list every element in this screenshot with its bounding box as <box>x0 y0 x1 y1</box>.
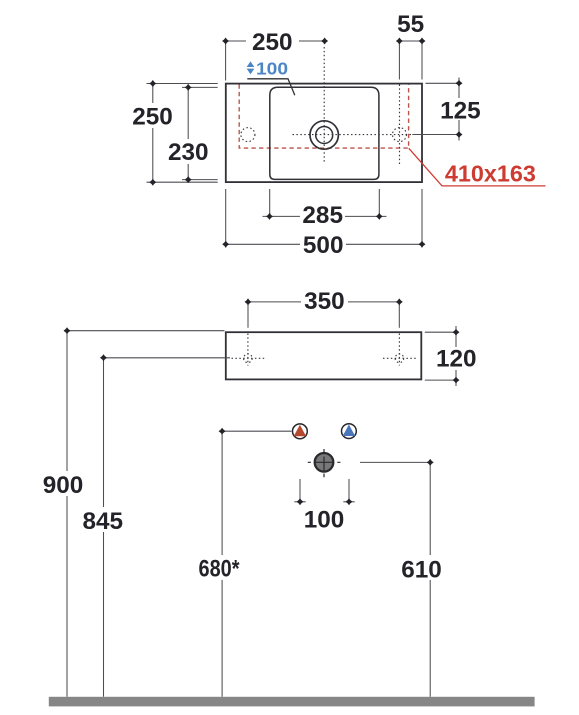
dimension 680* label <box>195 555 245 580</box>
dimension 900 label <box>42 471 85 496</box>
dimension 250 top arrow right <box>321 38 328 45</box>
tap-hole recess 410x163 red dashed rectangle <box>239 84 408 148</box>
dimension 230 label <box>165 139 211 164</box>
dimension 285 left extension line <box>269 189 271 216</box>
right mounting hole horizontal dotted centerline <box>383 357 416 359</box>
svg-text:500: 500 <box>303 232 344 259</box>
hot water supply symbol (red triangle in circle) <box>293 424 308 439</box>
dimension 250 left arrow bottom <box>149 179 156 186</box>
dimension 125 arrow top <box>456 80 463 87</box>
dimension 120 line <box>455 326 457 386</box>
bowl rounded rectangle (top view) <box>270 87 379 179</box>
floor bar <box>49 697 535 707</box>
dimension 845 line <box>103 358 105 697</box>
dimension 350 arrow right <box>396 298 403 305</box>
dimension 100 arrow left <box>297 498 304 505</box>
left mounting hole dotted circle <box>244 354 253 363</box>
svg-text:410x163: 410x163 <box>445 160 536 186</box>
svg-text:100: 100 <box>256 58 288 78</box>
dimension 350 right extension line <box>398 305 400 328</box>
dimension 230 arrow top <box>185 84 192 91</box>
basin outline (top view) fill <box>226 84 422 183</box>
dimension 500 right extension line <box>421 189 423 248</box>
dimension 100 left arrow line <box>299 479 301 502</box>
dimension 250 left bottom extension line <box>147 181 218 183</box>
svg-text:350: 350 <box>304 288 345 315</box>
dimension 845 arrow top <box>100 354 107 361</box>
svg-text:250: 250 <box>252 29 293 56</box>
dimension 900 arrow top <box>64 327 71 334</box>
drain inner circle <box>316 127 333 144</box>
dimension 125 label <box>440 98 480 120</box>
dimension 250 top arrow left <box>222 38 229 45</box>
dimension 125 arrow bottom <box>456 131 463 138</box>
dimension 285 right extension line <box>378 189 380 216</box>
dimension 845 extension line to mounting holes <box>104 357 231 359</box>
right faucet hole (dotted circle) <box>393 128 407 142</box>
centerline vertical dotted through right faucet <box>399 85 401 165</box>
dimension 55 arrow right <box>419 38 426 45</box>
dimension 610 extension line to drain <box>360 461 430 463</box>
dimension 285 arrow right <box>376 213 383 220</box>
dimension 250 left arrow top <box>149 80 156 87</box>
front view basin rectangle <box>226 332 421 379</box>
dimension 500 arrow right <box>419 241 426 248</box>
dimension 845 label <box>81 507 125 532</box>
dimension 500 left extension line <box>225 189 227 248</box>
svg-text:680*: 680* <box>199 556 240 583</box>
dimension 285 line <box>263 215 387 217</box>
svg-text:900: 900 <box>43 472 84 499</box>
dimension 100 right stub line <box>343 501 354 503</box>
dimension 285 label <box>300 205 345 225</box>
dimension 55 arrow left <box>396 38 403 45</box>
dimension 55 line <box>397 40 425 42</box>
dimension 900 extension line to basin <box>67 330 225 332</box>
right mounting hole vertical dotted centerline <box>398 334 400 366</box>
left mounting hole horizontal dotted centerline <box>232 357 265 359</box>
svg-text:610: 610 <box>401 556 442 583</box>
dimension 230 top extension line <box>182 86 218 88</box>
dimension 350 line <box>246 301 402 303</box>
svg-text:120: 120 <box>436 346 477 373</box>
dimension 125 line <box>458 78 460 141</box>
left faucet hole (dotted circle) <box>241 128 255 142</box>
svg-text:250: 250 <box>132 103 173 130</box>
cold water supply symbol (blue triangle in circle) <box>342 424 357 439</box>
drain outlet horizontal centerline <box>308 461 341 463</box>
dimension 120 top extension line <box>425 331 455 333</box>
blue note 100 up-down arrow icon <box>247 61 255 74</box>
dimension 500 label <box>300 234 346 255</box>
svg-text:55: 55 <box>397 11 424 38</box>
dimension 285 arrow left <box>266 213 273 220</box>
dimension 120 arrow bottom <box>453 377 460 384</box>
dimension 610 arrow top <box>427 459 434 466</box>
dimension 55 right extension line <box>421 44 423 80</box>
svg-text:230: 230 <box>168 139 209 166</box>
dimension 610 line <box>429 462 431 696</box>
drain outlet (gray circle) <box>315 453 334 472</box>
dimension 125 top extension line <box>426 82 458 84</box>
red leader line to 410x163 <box>409 148 546 186</box>
dimension 100 right arrow line <box>348 479 350 502</box>
svg-text:285: 285 <box>302 202 343 229</box>
dimension 250 top label <box>246 32 299 50</box>
basin outline (top view) stroke <box>226 84 422 183</box>
blue note leader line <box>247 79 294 95</box>
dimension 250 top left extension line <box>225 44 227 81</box>
dimension 610 label <box>399 555 445 580</box>
dimension 350 arrow left <box>245 298 252 305</box>
dimension 250 left label <box>130 103 175 128</box>
dimension 120 bottom extension line <box>425 379 455 381</box>
dimension 500 line <box>224 243 424 245</box>
dimension 680* extension line to water supplies <box>222 430 291 432</box>
right mounting hole dotted circle <box>395 354 404 363</box>
centerline horizontal dotted through drain and right faucet <box>293 134 413 136</box>
dimension 350 label <box>301 292 348 311</box>
dimension 680* arrow top <box>219 428 226 435</box>
dimension 120 label <box>436 347 477 370</box>
dimension 55 left extension line <box>398 44 400 80</box>
dimension 230 arrow bottom <box>185 176 192 183</box>
dimension 350 left extension line <box>247 305 249 328</box>
dimension 900 line <box>66 331 68 697</box>
dimension 120 arrow top <box>453 329 460 336</box>
dimension 500 arrow left <box>222 241 229 248</box>
svg-text:100: 100 <box>304 507 345 534</box>
dimension 250 (top horizontal) line <box>223 40 326 42</box>
dimension 230 line <box>187 85 189 183</box>
dimension 125 bottom extension line <box>412 134 457 136</box>
dimension 680* line <box>221 431 223 697</box>
svg-text:845: 845 <box>83 508 124 535</box>
dimension 250 (left vertical) line <box>152 81 154 185</box>
dimension 230 bottom extension line <box>182 179 218 181</box>
drain outlet vertical centerline <box>323 449 325 477</box>
svg-text:125: 125 <box>440 98 481 125</box>
dimension 100 arrow right <box>346 498 353 505</box>
left mounting hole vertical dotted centerline <box>247 334 249 366</box>
dimension 250 left top extension line <box>147 83 218 85</box>
dimension 100 left stub line <box>294 501 305 503</box>
centerline vertical dotted through drain <box>323 47 325 164</box>
drain outer circle <box>310 121 338 149</box>
